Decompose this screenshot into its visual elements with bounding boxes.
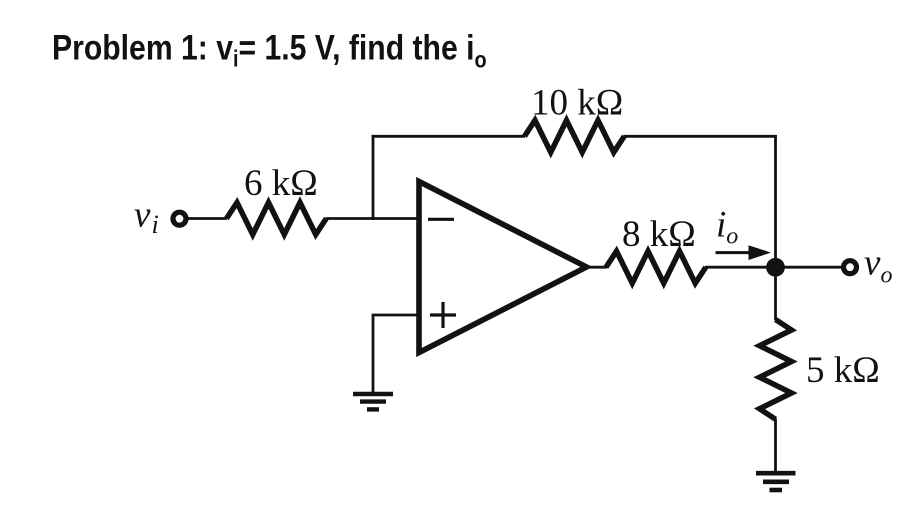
resistor R2 10 kOhm [525, 120, 625, 152]
wire: feedback vertical riser at node x=373 [372, 135, 375, 220]
svg-text:vo: vo [864, 242, 892, 288]
op-amp inverting input minus sign [428, 218, 454, 221]
wire: non-inverting input down to ground [372, 315, 375, 392]
current arrow io [716, 251, 753, 254]
resistor R3 8 kOhm [606, 251, 706, 283]
wire: op-amp output to 8k resistor [584, 266, 607, 269]
svg-text:io: io [716, 205, 738, 250]
current arrow head [749, 245, 772, 260]
svg-text:Problem 1: vi= 1.5 V, find the: Problem 1: vi= 1.5 V, find the io [52, 27, 487, 72]
title: Problem 1: vi = 1.5 V, find the io [52, 27, 487, 72]
svg-text:6 kΩ: 6 kΩ [244, 163, 318, 204]
wire: 5k resistor down to ground [774, 419, 777, 472]
svg-text:5 kΩ: 5 kΩ [806, 350, 880, 391]
svg-text:vi: vi [134, 194, 159, 239]
svg-text:10 kΩ: 10 kΩ [531, 83, 623, 124]
op-amp U1 triangle [419, 182, 587, 353]
svg-text:8 kΩ: 8 kΩ [622, 214, 696, 255]
resistor R1 6 kOhm [227, 203, 327, 235]
wire: feedback top-right segment [624, 135, 777, 138]
op-amp non-inverting input plus sign [430, 302, 456, 328]
wire: 8k resistor through node to vo terminal [705, 266, 844, 269]
wire: non-inverting input horizontal [372, 314, 420, 317]
wire: output node down to 5k resistor [774, 266, 777, 320]
wire: vi terminal to 6k resistor [187, 217, 227, 220]
wire: feedback top-left segment [372, 135, 525, 138]
ground (below 5k resistor) [756, 473, 796, 490]
terminal vi (open circle) [173, 212, 186, 225]
ground (op-amp + input) [353, 394, 393, 409]
wire: right vertical down to output node [774, 135, 777, 268]
node: output node junction dot [766, 258, 785, 277]
wire: 6k resistor to op-amp inverting input [326, 217, 421, 220]
resistor R4 5 kOhm (vertical) [760, 320, 792, 420]
terminal vo (open circle) [844, 261, 857, 274]
